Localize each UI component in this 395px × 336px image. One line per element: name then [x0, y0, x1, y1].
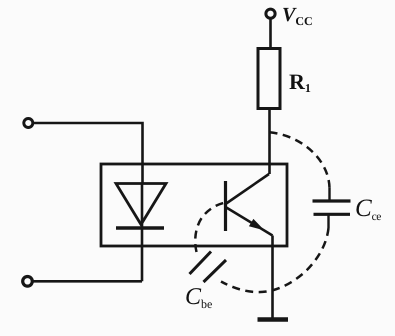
diode cathode bar	[116, 226, 164, 229]
capacitor Cce bottom plate	[314, 213, 351, 216]
transistor Q collector stroke	[226, 174, 270, 204]
dashed capacitance loop arc bottom	[221, 228, 329, 292]
resistor R1	[258, 49, 280, 109]
ground	[258, 317, 289, 322]
transistor Q base bar	[224, 181, 227, 231]
dashed capacitance loop arc left	[195, 203, 225, 253]
node Vcc terminal	[266, 9, 275, 18]
capacitor Cce top plate	[313, 199, 351, 202]
wire emitter to ground	[271, 236, 274, 319]
label Vcc	[282, 4, 313, 28]
label Cbe	[185, 284, 212, 311]
node input bottom terminal	[23, 277, 33, 287]
svg-text:Cce: Cce	[355, 195, 381, 223]
wire R1 to collector	[268, 109, 271, 175]
transistor Q emitter arrow	[249, 219, 265, 231]
dashed capacitance loop arc top-right	[270, 132, 330, 188]
svg-text:R1: R1	[289, 69, 311, 95]
transistor Q emitter stroke	[226, 207, 273, 236]
diode D (LED) triangle	[116, 184, 166, 225]
label R1	[289, 69, 311, 95]
wire diode through to bottom	[141, 183, 144, 281]
node input top terminal	[24, 119, 33, 128]
capacitor Cbe lower plate	[204, 260, 227, 282]
capacitor Cce top lead	[328, 188, 330, 200]
label Cce	[355, 195, 381, 223]
wire top terminal to diode anode	[33, 123, 143, 183]
svg-text:VCC: VCC	[282, 4, 313, 28]
optocoupler box	[101, 164, 287, 246]
capacitor Cbe upper plate	[190, 252, 212, 275]
wire diode cathode to bottom terminal	[32, 280, 142, 283]
capacitor Cce bottom lead	[327, 215, 329, 228]
svg-text:Cbe: Cbe	[185, 284, 212, 311]
wire Vcc to R1	[269, 19, 272, 49]
